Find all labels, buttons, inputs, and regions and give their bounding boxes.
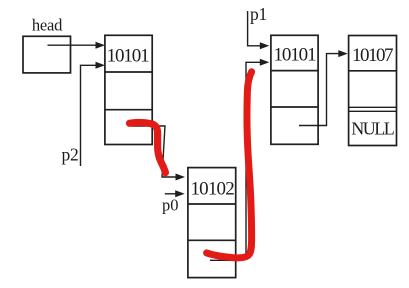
red pen stroke node1 to node2: [130, 123, 166, 173]
wire node1 next to node2: [131, 126, 177, 177]
node 1 box: [105, 35, 152, 144]
wire p2 to node1: [81, 65, 97, 166]
node 3 box: [271, 35, 318, 144]
wire p0 arrow: [165, 193, 176, 195]
head box: [23, 36, 71, 73]
node 4 box: [349, 36, 397, 146]
wire node2 next (black under red): [210, 259, 242, 261]
node 2 box: [188, 168, 236, 278]
svg-text:10107: 10107: [352, 45, 393, 66]
wire node3 next to node4: [299, 54, 339, 126]
svg-text:p1: p1: [250, 4, 267, 24]
svg-text:head: head: [32, 16, 63, 35]
svg-text:p2: p2: [62, 144, 79, 164]
wire node2 next vertical to node3 second arrow: [246, 62, 260, 256]
svg-text:NULL: NULL: [351, 119, 393, 139]
wire head to node1: [48, 44, 97, 46]
red pen stroke node2 to node3: [207, 72, 252, 258]
svg-text:p0: p0: [162, 196, 179, 215]
wire p1 to node3: [248, 11, 260, 46]
svg-text:10102: 10102: [190, 179, 234, 200]
svg-text:10101: 10101: [107, 46, 150, 67]
svg-text:10101: 10101: [273, 45, 316, 66]
